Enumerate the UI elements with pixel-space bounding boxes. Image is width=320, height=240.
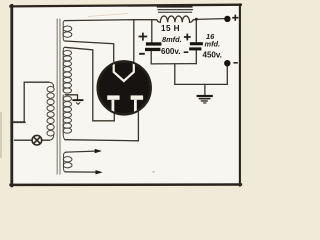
transformer 6.3V filament winding	[63, 152, 72, 172]
wire center tap	[65, 95, 77, 99]
wire 16mfd drop	[195, 19, 197, 42]
wire bottom rail to minus terminal	[175, 66, 228, 84]
transformer 5V filament winding	[63, 21, 72, 41]
faint scan scratch	[88, 14, 128, 17]
wire 8mfd bottom joint	[151, 51, 196, 64]
terminal plus	[224, 15, 238, 23]
svg-text:mfd.: mfd.	[205, 40, 221, 49]
wire 16mfd bottom	[195, 50, 197, 63]
C2 polarity plus	[184, 34, 191, 41]
wire 8mfd drop	[151, 20, 153, 43]
C1 polarity minus	[139, 53, 145, 55]
choke L1 iron core lines	[157, 7, 193, 13]
svg-text:15 H: 15 H	[161, 24, 180, 33]
border frame	[11, 5, 241, 186]
junction dot	[195, 18, 198, 21]
svg-text:450v.: 450v.	[203, 50, 222, 59]
choke L1 winding	[157, 16, 193, 22]
wire choke to plus terminal	[193, 19, 224, 20]
plate right	[131, 95, 144, 99]
wire 5V winding bottom to tube filament left	[65, 41, 114, 62]
plate left	[107, 95, 119, 99]
ground main	[197, 95, 213, 104]
wire negative rail drop	[174, 64, 176, 85]
capacitor C2 16mfd plates	[189, 42, 203, 50]
filament lead arrow bottom	[65, 170, 103, 174]
wire ground stub	[204, 84, 206, 95]
paper background outside frame	[0, 0, 244, 191]
filament lead arrow top	[65, 149, 102, 153]
transformer T1 core	[57, 19, 60, 175]
capacitor C1 8mfd plates	[145, 42, 161, 51]
transformer HV secondary winding upper	[63, 47, 71, 93]
svg-text:600v.: 600v.	[161, 47, 180, 56]
filament V	[114, 60, 134, 81]
ground center tap	[72, 99, 83, 104]
svg-text:8mfd.: 8mfd.	[162, 35, 182, 44]
C1 polarity plus	[139, 33, 148, 41]
wire HV top to tube left plate	[65, 47, 115, 121]
wire top rail from transformer to choke	[65, 19, 157, 22]
rectifier tube V1	[98, 60, 151, 114]
terminal minus	[224, 60, 238, 66]
transformer HV secondary winding lower	[63, 95, 71, 140]
wire tube filament lead right	[133, 20, 135, 62]
wire lamp to primary bottom	[41, 139, 49, 141]
pilot lamp	[32, 135, 42, 145]
wire primary top to AC lead	[24, 82, 49, 122]
wire AC lead to lamp	[14, 139, 32, 141]
faint photo edge marks	[0, 112, 2, 158]
C2 polarity minus	[184, 51, 189, 53]
wire HV bottom to tube right plate	[65, 111, 139, 141]
transformer primary winding	[47, 82, 54, 140]
